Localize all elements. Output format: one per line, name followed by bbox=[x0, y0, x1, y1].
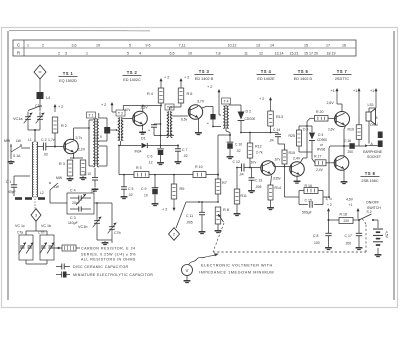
ground R3 bbox=[67, 177, 74, 181]
switch S1B bbox=[49, 176, 63, 203]
svg-text:2SB 156C: 2SB 156C bbox=[361, 179, 379, 183]
resistor R17 bbox=[312, 155, 336, 173]
ground C10 left bbox=[92, 188, 99, 192]
output line bbox=[330, 142, 378, 147]
resistor R15 bbox=[282, 144, 295, 167]
svg-text:+ 2: + 2 bbox=[164, 76, 169, 80]
ground R8 bbox=[215, 229, 222, 233]
svg-text:ALL RESISTORS IN OHMS: ALL RESISTORS IN OHMS bbox=[81, 257, 136, 261]
wire bias loop top bbox=[299, 125, 312, 127]
svg-text:R9: R9 bbox=[180, 187, 185, 191]
wire tuning caps to coil L1 bbox=[28, 125, 40, 143]
svg-text:R 18: R 18 bbox=[340, 212, 347, 216]
svg-text:18 19: 18 19 bbox=[327, 51, 336, 55]
svg-text:.02: .02 bbox=[43, 153, 48, 157]
svg-text:4: 4 bbox=[139, 51, 141, 55]
variable capacitor VC1a bbox=[13, 112, 32, 125]
wire detector bus bbox=[118, 145, 218, 175]
wire TS8 collector bbox=[343, 146, 345, 156]
svg-text:C 12: C 12 bbox=[233, 160, 240, 164]
svg-text:15,21: 15,21 bbox=[290, 51, 299, 55]
transistor TS3 bbox=[181, 100, 205, 122]
svg-text:+ 2: + 2 bbox=[259, 97, 264, 101]
svg-text:MW: MW bbox=[4, 139, 11, 143]
stage label TS5 bbox=[294, 69, 313, 81]
coil core dotted line bbox=[34, 196, 36, 209]
wire switch to coil taps bbox=[11, 144, 30, 148]
svg-text:C 1: C 1 bbox=[6, 180, 11, 184]
resistor R11 bbox=[234, 167, 247, 212]
svg-text:C7b: C7b bbox=[114, 231, 121, 235]
svg-text:.12: .12 bbox=[148, 161, 153, 165]
svg-text:.67v: .67v bbox=[274, 157, 281, 161]
svg-text:D1: D1 bbox=[141, 137, 146, 141]
svg-text:L1: L1 bbox=[28, 138, 32, 142]
transformer T1 bbox=[87, 112, 108, 167]
svg-text:1,7v: 1,7v bbox=[48, 138, 55, 142]
wire R2 to TS1 base bbox=[54, 133, 65, 148]
stage label TS4 bbox=[257, 69, 276, 81]
svg-text:,035v: ,035v bbox=[273, 177, 281, 181]
svg-text:,005: ,005 bbox=[255, 185, 262, 189]
trimmer group labels VC1c CTa VC1b CTb bbox=[15, 224, 51, 235]
svg-text:C 10: C 10 bbox=[235, 143, 242, 147]
resistor R3 bbox=[59, 160, 73, 176]
wire detector node bbox=[240, 132, 278, 134]
svg-text:CDG00: CDG00 bbox=[245, 117, 256, 121]
capacitor C2 bbox=[37, 138, 55, 157]
svg-text:VC 1b: VC 1b bbox=[41, 224, 51, 228]
svg-text:R 3: R 3 bbox=[59, 162, 65, 166]
capacitor C13 bbox=[249, 168, 263, 190]
svg-text:R11: R11 bbox=[241, 194, 247, 198]
ground C10 bbox=[227, 155, 234, 159]
svg-text:R12: R12 bbox=[255, 145, 262, 149]
svg-text:,04: ,04 bbox=[269, 139, 274, 143]
schematic right frame line bbox=[393, 31, 395, 300]
svg-text:VC1b: VC1b bbox=[78, 225, 88, 229]
wire R12 to TS4 base bbox=[249, 158, 251, 168]
capacitor C1 bbox=[6, 176, 30, 196]
svg-text:OHM: OHM bbox=[370, 123, 378, 127]
ground R14 bbox=[267, 206, 274, 210]
wire switch to battery bbox=[373, 220, 378, 228]
resistor R25 bbox=[289, 126, 302, 152]
wire T3 bottom bbox=[154, 135, 174, 147]
svg-text:VC 1c: VC 1c bbox=[15, 224, 25, 228]
svg-text:4,5V: 4,5V bbox=[385, 231, 389, 239]
bypass capacitor at T3 bbox=[149, 123, 162, 135]
diode D3 bbox=[303, 126, 315, 152]
svg-text:MW: MW bbox=[56, 176, 63, 180]
legend ceramic capacitor text bbox=[73, 265, 129, 269]
wire TS2 collector rail bbox=[123, 105, 161, 112]
svg-text:T 3: T 3 bbox=[167, 106, 172, 110]
svg-text:R 10: R 10 bbox=[195, 165, 203, 169]
supply arrow +2 for R4 bbox=[160, 76, 170, 89]
wire diamond 2 link bbox=[176, 202, 186, 228]
svg-text:D 3: D 3 bbox=[303, 128, 308, 132]
capacitor C9 bbox=[141, 174, 158, 202]
svg-text:5: 5 bbox=[129, 43, 131, 47]
wire feedback vertical bbox=[329, 146, 330, 197]
capacitor C4 block bbox=[50, 189, 112, 215]
svg-text:1,2V: 1,2V bbox=[78, 148, 86, 152]
ground C8 bbox=[325, 246, 332, 250]
variable capacitor VC1b bbox=[78, 202, 101, 240]
stage label TS7 bbox=[333, 69, 352, 81]
wire VC1b C7b join bbox=[97, 240, 112, 245]
ground C7 bbox=[175, 160, 182, 164]
capacitor C15 bbox=[302, 199, 312, 215]
svg-text:,04: ,04 bbox=[239, 173, 244, 177]
capacitor C6 bbox=[147, 146, 164, 165]
ground C9 bbox=[152, 202, 159, 206]
transistor TS2 bbox=[124, 106, 148, 126]
svg-text:R 2: R 2 bbox=[61, 124, 67, 128]
svg-text:C 13: C 13 bbox=[255, 179, 262, 183]
svg-text:3: 3 bbox=[65, 51, 67, 55]
resistor R20 bbox=[315, 110, 329, 121]
svg-text:R14: R14 bbox=[275, 186, 281, 190]
supply arrow +2 at T2 bbox=[101, 102, 116, 112]
svg-text:11: 11 bbox=[244, 51, 248, 55]
svg-text:+1: +1 bbox=[331, 89, 335, 93]
supply arrow +2 at T4 bbox=[207, 85, 221, 115]
ground C5 bbox=[121, 195, 128, 199]
capacitor across T4 tank bbox=[207, 114, 216, 125]
resistor R1 bbox=[80, 160, 86, 175]
coil L4 ferrite bead bbox=[37, 92, 51, 100]
svg-text:+ 2: + 2 bbox=[58, 105, 63, 109]
electronic voltmeter V bbox=[182, 253, 219, 275]
ground battery bbox=[375, 253, 382, 257]
resistor R18 bbox=[329, 212, 360, 223]
ground C6 bbox=[157, 161, 164, 165]
svg-text:TS 8: TS 8 bbox=[365, 171, 376, 176]
svg-text:40pF: 40pF bbox=[8, 190, 16, 194]
capacitor C3 label bbox=[68, 216, 78, 225]
stage label TS3 bbox=[195, 69, 214, 81]
svg-text:6,5v: 6,5v bbox=[181, 117, 188, 121]
transformer T4 bbox=[222, 98, 231, 129]
svg-text:TS 5: TS 5 bbox=[298, 69, 309, 74]
resistor R9 bbox=[171, 174, 184, 199]
capacitor C11 bbox=[186, 201, 205, 230]
capacitor C14 bbox=[269, 128, 285, 144]
svg-text:D 2: D 2 bbox=[246, 110, 252, 114]
wire TS8 emitter ground bbox=[343, 170, 345, 181]
svg-text:L4: L4 bbox=[46, 96, 50, 100]
svg-text:200: 200 bbox=[348, 150, 354, 154]
supply tap 4,5V +1 bbox=[346, 198, 360, 220]
svg-text:2,4V: 2,4V bbox=[316, 168, 324, 172]
svg-text:R 8: R 8 bbox=[223, 208, 229, 212]
diode D3 value label bbox=[317, 133, 327, 152]
ground TS3 bbox=[195, 131, 202, 135]
svg-text:R7: R7 bbox=[222, 181, 227, 185]
svg-text:C 14: C 14 bbox=[273, 128, 280, 132]
capacitor C7 bbox=[161, 145, 188, 161]
svg-text:.67v: .67v bbox=[250, 161, 257, 165]
svg-text:10: 10 bbox=[188, 51, 192, 55]
svg-text:ED 1402C: ED 1402C bbox=[123, 78, 141, 82]
schematic top frame line bbox=[9, 30, 150, 32]
wire TS3 emitter ground bbox=[197, 118, 199, 131]
svg-text:100: 100 bbox=[314, 241, 320, 245]
svg-text:3,7v: 3,7v bbox=[76, 136, 83, 140]
svg-text:S 2: S 2 bbox=[367, 210, 372, 214]
ground C17 bbox=[356, 246, 363, 250]
ground C13 bbox=[248, 189, 255, 193]
resistor R2 bbox=[52, 117, 67, 133]
svg-text:T 2: T 2 bbox=[118, 112, 123, 116]
wire T4 bottom node bbox=[218, 129, 231, 175]
svg-text:ELECTRONIC VOLTMETER WITH: ELECTRONIC VOLTMETER WITH bbox=[201, 264, 273, 268]
wire bus2 bbox=[186, 201, 218, 203]
ground R11 bbox=[234, 212, 241, 216]
svg-text:+ 2: + 2 bbox=[207, 85, 212, 89]
trimmer frame VC1b CTb bbox=[40, 235, 55, 260]
battery 4,5V bbox=[373, 229, 389, 253]
svg-text:C: C bbox=[17, 43, 20, 48]
svg-text:2,3V: 2,3V bbox=[141, 106, 149, 110]
svg-text:DISC CERAMIC CAPACITOR: DISC CERAMIC CAPACITOR bbox=[73, 265, 129, 269]
svg-text:T 1: T 1 bbox=[88, 114, 93, 118]
svg-text:13,14: 13,14 bbox=[275, 51, 284, 55]
supply arrow +2 for R6 bbox=[180, 76, 190, 89]
potentiometer R8 bbox=[215, 207, 229, 224]
svg-text:2SD77C: 2SD77C bbox=[335, 77, 350, 81]
svg-text:.02: .02 bbox=[128, 193, 133, 197]
svg-text:TS 1: TS 1 bbox=[63, 71, 74, 76]
trimmer capacitor C1a bbox=[35, 104, 44, 125]
svg-text:2,6V: 2,6V bbox=[328, 128, 335, 132]
svg-text:R 20: R 20 bbox=[316, 110, 323, 114]
junction detector bus to R7 bbox=[217, 174, 219, 176]
ground voltmeter bbox=[184, 276, 191, 283]
stage label TS2 bbox=[123, 70, 142, 82]
diode D2 bbox=[229, 105, 255, 133]
supply arrow +1 rail3 bbox=[370, 88, 378, 108]
svg-text:C 7: C 7 bbox=[182, 148, 188, 152]
wire TS3 collector bbox=[202, 107, 221, 128]
transistor TS4 bbox=[250, 157, 281, 180]
svg-text:500µF: 500µF bbox=[302, 211, 312, 215]
resistor R16 bbox=[304, 184, 318, 194]
svg-text:110µF: 110µF bbox=[68, 221, 78, 225]
node diamond 3 bbox=[31, 209, 41, 222]
earphone socket bbox=[363, 132, 383, 160]
svg-text:10: 10 bbox=[144, 194, 148, 198]
resistor R6 bbox=[178, 88, 192, 103]
wire R6 to T3 bbox=[170, 103, 182, 110]
trimmer capacitor C7b bbox=[108, 203, 121, 243]
trimmer frame VC1c CTa bbox=[19, 235, 34, 260]
svg-text:R: R bbox=[17, 51, 20, 56]
switch S1A bbox=[4, 139, 22, 159]
wire bias loop bottom bbox=[299, 152, 312, 159]
resistor R4 bbox=[147, 88, 164, 103]
svg-text:R 6: R 6 bbox=[187, 92, 193, 96]
svg-text:TS 4: TS 4 bbox=[261, 69, 272, 74]
transistor TS1 bbox=[48, 136, 86, 154]
wire gang trimmer connections bbox=[26, 221, 47, 264]
supply tap 3,7V +2 bbox=[326, 197, 333, 221]
resistor R7 bbox=[215, 175, 227, 194]
wire T1 to T2 bbox=[110, 129, 117, 131]
supply arrow +2 for R2 bbox=[54, 104, 64, 112]
svg-text:C 11: C 11 bbox=[186, 214, 193, 218]
svg-text:C 15: C 15 bbox=[305, 199, 312, 203]
svg-text:16: 16 bbox=[342, 43, 346, 47]
svg-text:.02: .02 bbox=[183, 154, 188, 158]
transistor TS7 bbox=[327, 101, 350, 132]
svg-text:C1a: C1a bbox=[35, 104, 43, 108]
svg-text:2: 2 bbox=[58, 51, 60, 55]
svg-text:5: 5 bbox=[127, 51, 129, 55]
capacitor C8 bbox=[313, 220, 332, 246]
svg-text:ED 1402E: ED 1402E bbox=[257, 77, 275, 81]
supply arrow +1 rail2 bbox=[353, 88, 361, 117]
wire TS4 collector to TS5 base bbox=[272, 162, 291, 168]
wire R8 bottom ground bbox=[217, 224, 219, 229]
diode D1 bbox=[121, 137, 161, 154]
svg-text:15 17 20: 15 17 20 bbox=[304, 51, 318, 55]
capacitor C17 bbox=[345, 219, 363, 246]
svg-text:CARBON RESISTOR, E 24: CARBON RESISTOR, E 24 bbox=[81, 247, 136, 251]
svg-text:C 10: C 10 bbox=[84, 172, 91, 176]
svg-text:MINIATURE ELECTROLYTIC CAPAC: MINIATURE ELECTROLYTIC CAPACITOR bbox=[73, 273, 153, 277]
svg-text:EQ 1502D: EQ 1502D bbox=[59, 79, 77, 83]
svg-text:RVS6: RVS6 bbox=[317, 148, 325, 152]
resistor R19 bbox=[348, 117, 362, 146]
legend ceramic capacitor symbol bbox=[56, 264, 70, 270]
transformer T2 bbox=[116, 110, 133, 146]
dashed link volume switch bbox=[213, 219, 366, 252]
resistor R12 bbox=[247, 133, 263, 159]
svg-text:9 6: 9 6 bbox=[146, 43, 151, 47]
svg-text:ED 1402 B: ED 1402 B bbox=[195, 77, 214, 81]
legend electrolytic capacitor symbol bbox=[56, 272, 70, 278]
voltmeter caption bbox=[199, 264, 274, 275]
loudspeaker LS1 bbox=[366, 103, 378, 144]
transformer T3 bbox=[165, 104, 188, 138]
transistor TS5 bbox=[290, 157, 305, 177]
svg-text:LS1: LS1 bbox=[368, 103, 374, 107]
stage label TS1 bbox=[59, 71, 78, 83]
svg-text:C 3: C 3 bbox=[70, 216, 76, 220]
svg-text:,005: ,005 bbox=[186, 221, 193, 225]
svg-text:10,12: 10,12 bbox=[228, 43, 237, 47]
svg-text:6,5: 6,5 bbox=[170, 51, 175, 55]
resistor R13 bbox=[268, 111, 283, 126]
ground TS5 bbox=[294, 180, 301, 184]
svg-text:9: 9 bbox=[100, 135, 102, 139]
svg-text:+ 2: + 2 bbox=[101, 103, 106, 107]
svg-text:C 4: C 4 bbox=[70, 189, 76, 193]
antenna A1 bbox=[34, 65, 46, 92]
capacitor C10 bbox=[227, 135, 243, 155]
resistor R14 bbox=[268, 176, 281, 207]
svg-text:3,7v: 3,7v bbox=[326, 197, 333, 201]
svg-text:1: 1 bbox=[86, 51, 88, 55]
svg-text:+ 2: + 2 bbox=[162, 208, 167, 212]
capacitor C16 bbox=[344, 139, 355, 154]
wire TS1 emitter bbox=[70, 153, 83, 159]
ground TS8 bbox=[341, 180, 348, 184]
wire antenna to tuning caps bbox=[28, 99, 40, 111]
svg-text:C 2: C 2 bbox=[41, 138, 47, 142]
svg-text:10: 10 bbox=[96, 43, 100, 47]
stage label TS8 bbox=[361, 171, 380, 183]
svg-text:15: 15 bbox=[304, 43, 308, 47]
svg-text:R 5: R 5 bbox=[136, 166, 142, 170]
svg-text:+1: +1 bbox=[353, 89, 357, 93]
svg-text:8: 8 bbox=[376, 116, 378, 120]
svg-text:2-7k: 2-7k bbox=[256, 151, 263, 155]
svg-text:ED 1402 D: ED 1402 D bbox=[294, 77, 313, 81]
resistor R10 bbox=[193, 165, 206, 178]
legend resistor symbol bbox=[52, 245, 80, 251]
svg-text:R 16: R 16 bbox=[305, 184, 312, 188]
svg-text:TS 3: TS 3 bbox=[199, 69, 210, 74]
svg-text:SOCKET: SOCKET bbox=[367, 155, 381, 159]
svg-text:12: 12 bbox=[259, 51, 263, 55]
svg-text:LW: LW bbox=[16, 139, 22, 143]
svg-text:2,4V: 2,4V bbox=[293, 157, 301, 161]
svg-text:CD900: CD900 bbox=[317, 138, 327, 142]
svg-text:17: 17 bbox=[326, 43, 330, 47]
svg-text:7,11: 7,11 bbox=[179, 43, 186, 47]
svg-text:1: 1 bbox=[27, 43, 29, 47]
svg-text:R 4: R 4 bbox=[147, 92, 153, 96]
svg-text:7,8: 7,8 bbox=[216, 51, 221, 55]
coil L1 bbox=[28, 138, 44, 197]
svg-text:+ 2: + 2 bbox=[184, 76, 189, 80]
wire R20 to TS7 base bbox=[328, 117, 336, 119]
svg-text:V: V bbox=[186, 268, 189, 273]
parts locator table bbox=[13, 40, 356, 56]
svg-text:13: 13 bbox=[256, 43, 260, 47]
svg-text:2: 2 bbox=[42, 43, 44, 47]
svg-text:ON/OFF: ON/OFF bbox=[366, 201, 379, 205]
svg-text:C 9: C 9 bbox=[141, 187, 147, 191]
legend electrolytic capacitor text bbox=[73, 273, 153, 277]
svg-text:TS 2: TS 2 bbox=[127, 70, 138, 75]
wire R4 bottom bbox=[160, 103, 162, 136]
ground C11 bbox=[199, 230, 206, 234]
svg-text:R 17: R 17 bbox=[314, 155, 321, 159]
svg-text:VC1a: VC1a bbox=[13, 117, 23, 121]
svg-text:220: 220 bbox=[344, 219, 350, 223]
svg-text:TS 7: TS 7 bbox=[337, 69, 348, 74]
svg-text:C 8: C 8 bbox=[313, 234, 319, 238]
capacitor C10 left bbox=[84, 168, 98, 194]
svg-text:C 17: C 17 bbox=[345, 234, 352, 238]
svg-text:SWITCH: SWITCH bbox=[367, 206, 381, 210]
svg-text:T 4: T 4 bbox=[223, 100, 228, 104]
ground S1A bbox=[8, 160, 15, 164]
svg-text:S 1A: S 1A bbox=[13, 154, 21, 158]
svg-text:3,7V: 3,7V bbox=[197, 100, 205, 104]
capacitor C5 bbox=[121, 174, 134, 197]
svg-text:2,6V: 2,6V bbox=[327, 101, 335, 105]
svg-text:14: 14 bbox=[270, 43, 274, 47]
svg-text:R15: R15 bbox=[289, 151, 295, 155]
capacitor C12 bbox=[233, 160, 261, 177]
svg-text:SERIES, 0.25W (1/4) ± 5%: SERIES, 0.25W (1/4) ± 5% bbox=[81, 252, 136, 256]
